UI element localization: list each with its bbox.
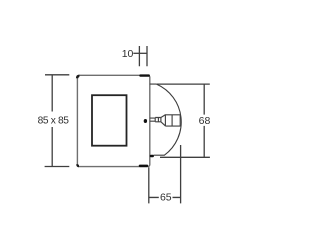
svg-text:10: 10: [122, 48, 134, 60]
svg-text:65: 65: [160, 192, 172, 204]
svg-text:68: 68: [199, 115, 211, 127]
svg-text:85 x 85: 85 x 85: [38, 116, 70, 127]
